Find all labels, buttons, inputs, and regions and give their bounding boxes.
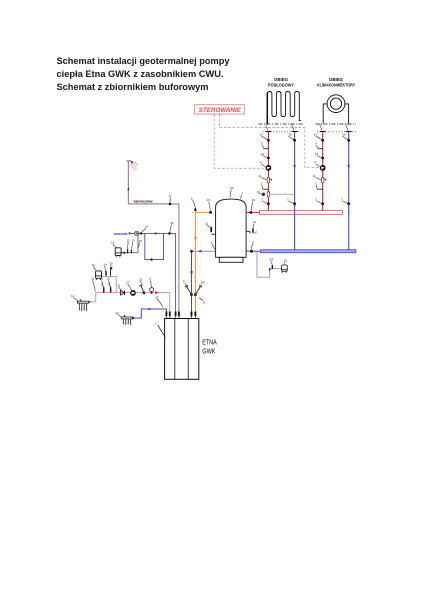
HP top connection fittings	[166, 312, 197, 317]
svg-text:36: 36	[342, 133, 346, 137]
circuit 2 blue return riser	[348, 132, 350, 250]
OBIEG KLIMAKONWEKTORY label	[317, 77, 355, 87]
circuit 1 blue return riser	[294, 132, 296, 250]
riser junction dots	[267, 139, 350, 205]
shut-off valves above HP	[185, 285, 202, 296]
fancoil boundary dash-dot	[316, 123, 357, 125]
heat pump unit	[158, 319, 199, 380]
svg-text:11: 11	[258, 174, 261, 178]
svg-text:28: 28	[170, 221, 174, 225]
buffer tank	[216, 199, 247, 262]
svg-text:25: 25	[230, 186, 234, 190]
svg-text:33: 33	[91, 277, 95, 281]
control wire B to pump 2	[220, 114, 320, 167]
svg-text:20: 20	[252, 198, 256, 202]
svg-text:26: 26	[290, 123, 294, 127]
svg-text:22: 22	[139, 278, 143, 282]
riser top caps	[265, 131, 351, 133]
svg-text:ciepła Etna GWK z zasobnikiem: ciepła Etna GWK z zasobnikiem CWU.	[57, 69, 224, 80]
red line tank to red beam	[246, 211, 259, 213]
svg-text:16: 16	[314, 133, 318, 137]
svg-text:12: 12	[100, 277, 104, 281]
svg-text:18: 18	[319, 123, 323, 127]
floor heating coil	[267, 92, 301, 125]
svg-text:30: 30	[109, 262, 113, 266]
svg-text:OBIEG: OBIEG	[274, 77, 289, 82]
svg-text:12: 12	[71, 294, 75, 298]
svg-text:18: 18	[264, 123, 268, 127]
svg-text:Schemat z zbiornikiem buforowy: Schemat z zbiornikiem buforowym	[57, 82, 209, 93]
svg-text:12: 12	[127, 239, 131, 243]
title text	[57, 56, 231, 93]
svg-text:PODŁOGOWY: PODŁOGOWY	[268, 82, 294, 87]
svg-text:14: 14	[103, 263, 107, 267]
svg-text:11: 11	[313, 174, 316, 178]
brine circuit red	[89, 276, 170, 311]
tank left sensor	[211, 233, 215, 235]
ground exchanger manifold 1	[77, 301, 88, 310]
svg-text:31: 31	[117, 284, 121, 288]
tank right side stub	[246, 231, 250, 233]
svg-text:36: 36	[288, 133, 292, 137]
control wire A to pump 1	[214, 114, 265, 168]
svg-text:Schemat instalacji geotermalne: Schemat instalacji geotermalnej pompy	[57, 56, 231, 67]
svg-text:24: 24	[201, 280, 205, 284]
DHW purple line with shower	[128, 162, 179, 312]
svg-text:13: 13	[111, 241, 115, 245]
leader labels	[71, 123, 348, 326]
svg-text:OBIEG: OBIEG	[329, 77, 344, 82]
svg-text:27: 27	[126, 281, 130, 285]
emitter zone dotted boundaries	[263, 131, 301, 133]
brine stub valves	[103, 287, 111, 292]
circuit 1 red supply riser	[267, 132, 269, 211]
circuit 2 red supply riser	[322, 132, 324, 211]
OBIEG PODLOGOWY label	[268, 77, 294, 87]
svg-text:ETNA: ETNA	[202, 340, 217, 347]
orange supply from HP to tank	[195, 210, 211, 312]
shower head	[131, 160, 138, 170]
blue riser flow arrows	[293, 165, 296, 169]
svg-text:13: 13	[260, 152, 264, 156]
svg-text:10: 10	[256, 190, 260, 194]
brine return blue	[133, 309, 167, 318]
STEROWANIE control box	[195, 105, 245, 114]
3-way mixing valve circuit 1	[267, 192, 269, 198]
pump P1	[266, 165, 272, 171]
blue collector beam	[261, 250, 356, 253]
svg-text:STEROWANIE: STEROWANIE	[199, 107, 242, 114]
svg-text:17: 17	[145, 225, 149, 229]
svg-text:15: 15	[106, 277, 110, 281]
svg-text:KLIMAKONWEKTORY: KLIMAKONWEKTORY	[317, 82, 355, 87]
balancing valves on risers	[267, 177, 324, 183]
cold water line	[129, 233, 176, 311]
pump P2	[320, 165, 326, 171]
blue return line tank to HP	[192, 250, 247, 252]
safety valve on brine branch	[105, 271, 107, 276]
svg-text:10: 10	[139, 239, 143, 243]
brine lever valve	[143, 292, 145, 295]
svg-text:19: 19	[132, 239, 136, 243]
svg-text:32: 32	[115, 311, 119, 315]
expansion vessel CWU	[115, 233, 138, 257]
svg-text:13: 13	[315, 152, 319, 156]
fan coil unit	[323, 95, 348, 124]
svg-text:GWK: GWK	[202, 349, 216, 356]
pressure reducing valve on cold line	[135, 231, 139, 235]
floor circuit boundary dash-dot	[259, 123, 304, 125]
svg-text:35: 35	[155, 296, 159, 300]
svg-text:13: 13	[283, 259, 287, 263]
ground exchanger manifold 2	[121, 317, 132, 324]
brine gauge	[150, 288, 154, 292]
expansion vessel brine	[96, 271, 102, 280]
svg-text:13: 13	[91, 263, 95, 267]
svg-text:zimna woda: zimna woda	[114, 232, 128, 236]
svg-text:23: 23	[269, 258, 273, 262]
red distribution beam	[260, 211, 343, 215]
svg-text:ciepła woda użytkowa: ciepła woda użytkowa	[134, 200, 153, 204]
svg-text:21: 21	[253, 220, 257, 224]
svg-text:26: 26	[345, 123, 349, 127]
svg-text:26: 26	[207, 198, 211, 202]
svg-text:15: 15	[205, 222, 209, 226]
brine check valve	[121, 291, 125, 296]
tank drain expansion branch	[257, 251, 282, 277]
brine pump	[130, 290, 136, 296]
svg-text:16: 16	[260, 133, 264, 137]
circuit 1 mixing bypass	[268, 193, 294, 195]
side tees on red risers	[263, 149, 323, 190]
